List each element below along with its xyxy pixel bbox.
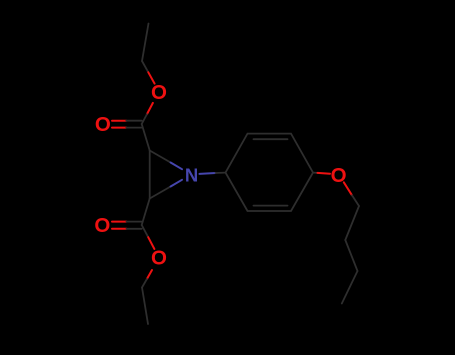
wire bond C3-N (aziridine) [150,187,171,199]
wire bond O4-CH2b (ester O to ethyl, bottom) [147,270,152,279]
wire bond CH3a-CH2a (top ethyl terminal) [142,24,149,62]
capacitor-style double bond Cb=O3 (bottom C=O) [112,221,127,223]
svg-text:O: O [151,81,167,104]
wire bond O5-CH2c (ether O to butyl C1) [344,182,352,195]
wire bond C3-Cb [142,199,150,226]
wire bond N-Cipso (N to benzene) [200,172,216,175]
svg-text:O: O [151,247,167,270]
svg-text:O: O [95,113,111,136]
svg-text:O: O [331,164,347,187]
wire bond CH2b-CH3b (bottom ethyl terminal) [142,288,148,325]
wire bond C2-C3 (aziridine ring left edge) [149,151,151,199]
node benzene ring outline [226,134,314,211]
svg-text:O: O [94,214,110,237]
wire bond Cb-O4 (carbonyl C to ester O, bottom) [142,225,149,237]
wire bond CH2e-CH3f (butyl C3-C4) [342,271,358,304]
wire bond C2-N (aziridine) [150,151,171,163]
wire bond CH2d-CH2e (butyl C2-C3) [345,240,357,271]
capacitor-style double bond Ca=O2 (top C=O) [112,120,126,122]
wire bond CH2c-CH2d (butyl C1-C2) [345,206,359,240]
capacitor-style inner line benzene top double bond [254,138,288,140]
svg-text:N: N [185,165,198,186]
wire bond CH2a-O1 (ethyl to ester O, top) [142,61,148,72]
wire bond O1-Ca (ester O to carbonyl C, top) [147,103,153,114]
wire bond Cpara-O5 (benzene to ether O) [313,172,318,174]
wire bond Ca-C2 [142,124,150,151]
capacitor-style inner line benzene bottom double bond [254,205,288,207]
